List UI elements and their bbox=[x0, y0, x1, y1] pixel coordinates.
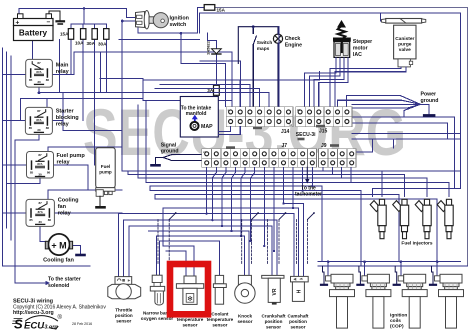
wire aux vertical A bbox=[59, 39, 61, 92]
wire J14 pin stubs bbox=[239, 80, 241, 107]
svg-text:❄: ❄ bbox=[187, 295, 193, 303]
wire bus L14 bbox=[149, 230, 249, 232]
arrow intake blue bbox=[194, 119, 196, 123]
junction fuse riser bbox=[83, 7, 86, 10]
wire starter relay right pin bbox=[52, 121, 63, 131]
svg-text:30: 30 bbox=[37, 80, 41, 84]
fuse F1 15A bbox=[68, 29, 73, 40]
wire main relay left pin bbox=[3, 74, 26, 76]
svg-text:sensor: sensor bbox=[237, 319, 252, 324]
connector J14 bbox=[226, 107, 293, 127]
svg-text:86: 86 bbox=[47, 170, 51, 174]
fuse F2 10A bbox=[81, 29, 86, 40]
stepper motor IAC bbox=[333, 20, 351, 57]
wire bus y98.5 bbox=[20, 98, 143, 100]
svg-text:maps: maps bbox=[257, 47, 270, 52]
connector J7 bbox=[202, 149, 317, 167]
fuel injector 3 bbox=[415, 199, 431, 238]
wire fuse top bus bbox=[71, 24, 106, 28]
switch maps S1 bbox=[253, 27, 256, 107]
wire starter relay bottom bbox=[15, 134, 39, 140]
svg-text:15A: 15A bbox=[60, 31, 69, 36]
wire bus L16 bbox=[160, 240, 220, 242]
svg-text:87A: 87A bbox=[36, 70, 41, 74]
wire bus L5 bbox=[150, 185, 322, 187]
wire starter solenoid drop bbox=[15, 140, 46, 283]
svg-text:Starter: Starter bbox=[56, 109, 75, 115]
shield crank cable bbox=[267, 220, 279, 265]
svg-text:Fuel injectors: Fuel injectors bbox=[401, 241, 433, 247]
svg-text:position: position bbox=[289, 319, 307, 324]
wire ignition feed 2 bbox=[122, 20, 135, 22]
svg-text:(COP): (COP) bbox=[390, 324, 404, 330]
wire bus L2 bbox=[128, 173, 405, 175]
diode D1 1N5822 bbox=[212, 49, 222, 54]
canister purge valve V1 bbox=[382, 19, 426, 67]
svg-text:Camshaft: Camshaft bbox=[288, 314, 309, 319]
svg-text:motor: motor bbox=[353, 46, 368, 52]
ground signal bbox=[152, 164, 160, 167]
wire bus L10 bbox=[163, 207, 299, 209]
svg-text:30A: 30A bbox=[87, 41, 96, 46]
wires canister down to bus bbox=[330, 67, 406, 107]
svg-text:Engine: Engine bbox=[285, 43, 302, 49]
svg-text:85: 85 bbox=[29, 218, 33, 222]
connector J9 bbox=[319, 149, 357, 167]
ignition coil 4 bbox=[435, 274, 464, 328]
wire bus L18 bbox=[166, 250, 186, 252]
power ground funnel bbox=[337, 96, 429, 118]
wire main relay bottom bbox=[38, 87, 40, 93]
wire left bus A bbox=[121, 21, 123, 171]
svg-text:switch: switch bbox=[170, 22, 187, 28]
wire O2 a bbox=[156, 236, 158, 275]
svg-text:Stepper: Stepper bbox=[353, 39, 372, 45]
svg-text:manifold: manifold bbox=[186, 111, 207, 117]
wire cam b bbox=[298, 208, 300, 276]
svg-text:87: 87 bbox=[39, 201, 43, 205]
svg-text:sensor: sensor bbox=[182, 323, 197, 328]
connector J15 bbox=[296, 107, 352, 127]
svg-text:15A: 15A bbox=[217, 8, 226, 13]
wire 3A fuse down bbox=[215, 95, 217, 100]
svg-text:87A: 87A bbox=[37, 162, 42, 166]
wire left feeders bbox=[121, 147, 123, 171]
svg-text:1N5822: 1N5822 bbox=[206, 40, 211, 55]
svg-text:temperature: temperature bbox=[177, 317, 204, 322]
svg-text:−: − bbox=[47, 19, 51, 26]
svg-text:85: 85 bbox=[30, 170, 34, 174]
wire cooling fan relay right pin bbox=[54, 212, 122, 214]
fuse F4 30A bbox=[104, 29, 109, 40]
svg-text:J15: J15 bbox=[319, 129, 328, 135]
wire coolant bbox=[219, 241, 221, 275]
svg-text:solenoid: solenoid bbox=[48, 283, 69, 289]
wire diode branch bbox=[208, 33, 217, 49]
svg-text:sensor: sensor bbox=[290, 325, 305, 330]
wire bus L11 bbox=[118, 213, 294, 215]
svg-text:purge: purge bbox=[398, 42, 412, 48]
ground coil bbox=[323, 266, 325, 284]
wire main relay top bbox=[31, 39, 33, 59]
svg-text:Ignition: Ignition bbox=[170, 16, 189, 22]
svg-text:®: ® bbox=[58, 314, 63, 321]
wire y61.2 bbox=[200, 61, 240, 106]
junction bbox=[180, 32, 183, 35]
check engine lamp bbox=[273, 34, 282, 43]
coolant temperature sensor bbox=[213, 275, 226, 304]
wire bus L13 bbox=[129, 225, 272, 227]
wire cooling fan to ground bbox=[72, 246, 80, 255]
wire bus L8 bbox=[155, 198, 437, 200]
svg-text:Battery: Battery bbox=[19, 29, 48, 38]
wire starter relay left pin bbox=[3, 99, 26, 121]
wire bus y146.9 bbox=[48, 146, 122, 148]
wire TPS b bbox=[123, 220, 125, 277]
svg-text:Knock: Knock bbox=[238, 314, 252, 319]
logo SECU-3.org bbox=[13, 314, 63, 332]
MAP sensor bbox=[191, 122, 199, 130]
wire aux vertical B bbox=[62, 93, 64, 121]
svg-text:valve: valve bbox=[399, 47, 411, 53]
wire main relay right pin bbox=[52, 52, 232, 107]
wire bus y39.4 bbox=[119, 38, 200, 40]
wire TPS c bbox=[128, 226, 130, 277]
junction bbox=[38, 91, 41, 94]
wire crank a bbox=[271, 226, 273, 275]
wire fuel pump relay right pin bbox=[54, 165, 88, 190]
cooling fan motor M1 bbox=[45, 234, 72, 255]
svg-text:Check: Check bbox=[285, 36, 301, 42]
svg-text:position: position bbox=[265, 319, 283, 324]
shield cam cable bbox=[297, 220, 308, 265]
svg-text:relay: relay bbox=[56, 122, 70, 128]
wire bus L12 bbox=[124, 219, 277, 221]
wire bus L3 bbox=[138, 177, 427, 179]
junction bbox=[121, 20, 124, 23]
svg-text:tachometer: tachometer bbox=[295, 192, 322, 198]
wire cam c bbox=[303, 204, 305, 277]
svg-text:87: 87 bbox=[38, 153, 42, 157]
wire fuel pump relay top bbox=[47, 147, 49, 152]
ground battery bbox=[57, 20, 65, 22]
svg-text:VR: VR bbox=[272, 288, 278, 295]
wire bus L4 bbox=[146, 181, 449, 183]
ground coil bbox=[395, 266, 397, 284]
wire bus y130.5 bbox=[63, 130, 122, 132]
ground coil bbox=[432, 266, 434, 284]
svg-text:30: 30 bbox=[39, 220, 43, 224]
svg-text:SECU-3i: SECU-3i bbox=[296, 132, 316, 138]
svg-text:relay: relay bbox=[57, 160, 71, 166]
svg-text:ground: ground bbox=[161, 149, 179, 155]
wire perimeter inner bbox=[200, 13, 461, 189]
throttle position sensor bbox=[108, 277, 141, 300]
wire diode to 3A fuse bbox=[215, 54, 217, 86]
wire battery minus to ground bbox=[49, 11, 60, 21]
svg-text:Crankshaft: Crankshaft bbox=[262, 314, 286, 319]
wire TPS a bbox=[117, 214, 119, 277]
wire cooling fan relay left pin bbox=[3, 212, 27, 214]
svg-text:Fuel: Fuel bbox=[101, 164, 110, 169]
svg-text:H: H bbox=[296, 289, 302, 293]
relay K4 cooling fan bbox=[26, 199, 54, 226]
svg-text:To the starter: To the starter bbox=[48, 277, 81, 283]
wire bus L1 bbox=[122, 170, 460, 172]
wire aux vertical C bbox=[100, 52, 102, 93]
knock sensor bbox=[235, 275, 255, 303]
relay K3 fuel pump bbox=[27, 152, 54, 179]
svg-text:sensor: sensor bbox=[266, 325, 281, 330]
svg-text:J14: J14 bbox=[281, 129, 290, 135]
wire perimeter outer bbox=[215, 8, 468, 267]
svg-text:coils: coils bbox=[390, 318, 401, 324]
svg-text:+: + bbox=[16, 19, 20, 26]
svg-text:Canister: Canister bbox=[395, 36, 414, 42]
svg-text:87: 87 bbox=[37, 109, 41, 113]
wire cooling fan relay bottom to motor bbox=[40, 226, 45, 241]
wire switch output down bbox=[138, 8, 204, 34]
svg-text:Fuel pump: Fuel pump bbox=[57, 153, 86, 159]
svg-text:MAP: MAP bbox=[201, 124, 213, 130]
ground power bbox=[424, 114, 434, 117]
wire J15 right area bbox=[352, 117, 461, 189]
wire fuse bus riser bbox=[83, 9, 85, 25]
ignition coil 2 bbox=[362, 274, 391, 328]
wire IAT b bbox=[193, 246, 195, 276]
svg-text:30A: 30A bbox=[98, 42, 107, 47]
narrow band oxygen sensor bbox=[150, 275, 164, 305]
svg-text:Throttle: Throttle bbox=[115, 308, 133, 313]
svg-text:pump: pump bbox=[99, 170, 112, 175]
wire fuse1 down bbox=[70, 39, 72, 74]
ground fuel pump bbox=[97, 206, 105, 209]
svg-text:blocking: blocking bbox=[56, 115, 80, 121]
wire starter relay top bbox=[46, 99, 48, 108]
wire J7 pin drops bbox=[206, 167, 208, 213]
wire fuse2 down bbox=[82, 39, 84, 120]
fuel injector 4 bbox=[437, 199, 453, 238]
wire fuse4 down bbox=[105, 39, 107, 92]
svg-text:relay: relay bbox=[58, 211, 72, 217]
wire x180.9 down bbox=[181, 33, 226, 106]
wire to tachometer bbox=[306, 167, 308, 179]
svg-text:sensor: sensor bbox=[212, 323, 227, 328]
wire fuel pump ground bbox=[99, 196, 101, 207]
wire left edge bus 1 bbox=[3, 48, 91, 266]
fuel injector 2 bbox=[393, 199, 409, 238]
fuse F6 3A bbox=[214, 85, 220, 95]
svg-text:+ M: + M bbox=[51, 240, 66, 250]
ignition coil 3 bbox=[398, 274, 427, 328]
wire y79.9 long bbox=[143, 72, 320, 80]
svg-text:87A: 87A bbox=[36, 118, 41, 122]
wire IAT a bbox=[185, 251, 187, 276]
ground coil bbox=[359, 266, 361, 284]
shield arrows bbox=[169, 212, 315, 219]
wire fuel pump relay left pin bbox=[3, 164, 27, 166]
svg-text:85: 85 bbox=[29, 78, 33, 82]
wire coil bus bbox=[318, 262, 468, 267]
wire coil tab risers bbox=[327, 262, 329, 276]
svg-text:10A: 10A bbox=[75, 41, 84, 46]
relay K2 starter blocking bbox=[25, 107, 52, 134]
arrow to starter solenoid bbox=[46, 281, 51, 285]
svg-text:ground: ground bbox=[421, 98, 439, 104]
svg-text:Cooling fan: Cooling fan bbox=[43, 258, 74, 264]
wire MAP to J14 bbox=[218, 127, 240, 135]
svg-text:30: 30 bbox=[38, 172, 42, 176]
shield knock cable bbox=[242, 220, 252, 265]
fuel injector 1 bbox=[370, 199, 386, 238]
wire bus L7 bbox=[155, 194, 399, 196]
svg-text:Ignition: Ignition bbox=[390, 313, 407, 319]
svg-text:Power: Power bbox=[421, 92, 437, 98]
wire knock a bbox=[244, 236, 246, 275]
relay K1 main bbox=[26, 59, 53, 87]
svg-text:J7: J7 bbox=[282, 143, 288, 149]
wire bus L17 bbox=[163, 245, 194, 247]
wire knock b bbox=[248, 231, 250, 275]
ignition switch bbox=[136, 11, 169, 29]
crankshaft position sensor bbox=[262, 275, 284, 304]
wire bus L9 bbox=[284, 203, 304, 205]
wire y78.6 left bbox=[100, 79, 143, 101]
svg-text:30: 30 bbox=[37, 128, 41, 132]
svg-text:87: 87 bbox=[37, 61, 41, 65]
wire battery plus to top bus bbox=[19, 9, 136, 18]
ignition coil 1 bbox=[326, 274, 355, 328]
wire fuel pump relay bottom bbox=[7, 178, 40, 183]
MAP box bbox=[180, 97, 218, 138]
svg-text:86: 86 bbox=[48, 218, 52, 222]
svg-text:fan: fan bbox=[58, 204, 67, 210]
wire O2 b bbox=[159, 241, 161, 275]
wire cooling fan relay top bbox=[48, 190, 122, 199]
svg-text:Main: Main bbox=[56, 63, 69, 69]
intake air temperature sensor bbox=[176, 276, 203, 304]
wire injector feeds bbox=[382, 171, 449, 196]
camshaft position sensor bbox=[291, 276, 309, 301]
wire crank b bbox=[276, 220, 278, 275]
fuse F5 15A horizontal bbox=[204, 5, 215, 11]
svg-text:http://secu-3.org: http://secu-3.org bbox=[13, 310, 54, 316]
wire cam a bbox=[293, 214, 295, 277]
svg-text:relay: relay bbox=[56, 69, 70, 75]
svg-text:86: 86 bbox=[46, 126, 50, 130]
svg-text:Switch: Switch bbox=[257, 40, 273, 46]
shield oxygen/IAT cable bbox=[158, 220, 308, 265]
svg-text:Cooling: Cooling bbox=[58, 198, 79, 204]
svg-text:sensor: sensor bbox=[116, 319, 131, 324]
ground cooling fan bbox=[77, 254, 85, 257]
wire left edge bus 2 bbox=[6, 52, 8, 228]
wire bus L15 bbox=[157, 235, 245, 237]
wire bus y100.6 bbox=[143, 101, 232, 107]
red highlight box bbox=[170, 264, 208, 314]
fuel pump P1 bbox=[96, 148, 116, 197]
svg-text:86: 86 bbox=[46, 78, 50, 82]
wire check engine top bbox=[238, 27, 278, 107]
wires stepper to J15 bbox=[305, 57, 349, 106]
svg-text:IAC: IAC bbox=[353, 52, 362, 58]
svg-text:85: 85 bbox=[29, 126, 33, 130]
wire left edge bus 3 bbox=[10, 56, 12, 240]
svg-text:temperature: temperature bbox=[207, 317, 234, 322]
wire canister pipe feed bbox=[380, 13, 382, 21]
svg-text:Coolant: Coolant bbox=[211, 312, 229, 317]
battery bbox=[14, 14, 54, 41]
wire coil drops bbox=[322, 186, 437, 266]
fuse F3 30A bbox=[92, 29, 97, 40]
wire bus L6 bbox=[150, 190, 361, 192]
svg-text:87A: 87A bbox=[38, 210, 43, 214]
svg-text:position: position bbox=[115, 313, 133, 318]
wire bus y92.6 bbox=[39, 92, 119, 94]
svg-text:J9: J9 bbox=[321, 143, 327, 149]
wire J9 pin drops bbox=[322, 167, 324, 171]
wire fuse3 down bbox=[94, 39, 96, 165]
svg-text:28 Feb 2016: 28 Feb 2016 bbox=[72, 322, 92, 326]
